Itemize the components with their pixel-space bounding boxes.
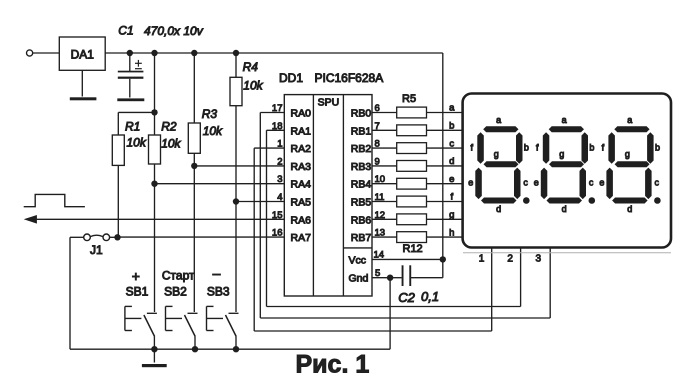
svg-text:RA6: RA6 (291, 214, 312, 226)
svg-text:10k: 10k (243, 79, 263, 93)
svg-text:C1: C1 (118, 24, 133, 38)
svg-text:Рис. 1: Рис. 1 (296, 351, 370, 379)
svg-text:R1: R1 (125, 120, 140, 134)
svg-text:f: f (450, 192, 453, 203)
svg-text:R3: R3 (202, 107, 218, 121)
svg-text:RB4: RB4 (351, 179, 372, 191)
svg-text:c: c (589, 178, 594, 188)
svg-text:a: a (627, 115, 632, 125)
svg-text:RB6: RB6 (351, 214, 372, 226)
svg-text:RB7: RB7 (351, 232, 372, 244)
svg-text:Vcc: Vcc (349, 254, 367, 266)
svg-text:g: g (449, 210, 454, 221)
svg-text:RB1: RB1 (351, 125, 372, 137)
svg-text:Старт: Старт (162, 269, 195, 283)
svg-text:a: a (449, 103, 455, 114)
svg-text:RA3: RA3 (291, 161, 312, 173)
svg-text:RA0: RA0 (291, 108, 312, 120)
svg-text:2: 2 (507, 254, 513, 265)
svg-text:d: d (627, 204, 632, 214)
svg-text:SB3: SB3 (207, 285, 230, 299)
svg-text:RA7: RA7 (291, 232, 312, 244)
svg-text:e: e (449, 174, 454, 185)
svg-text:R12: R12 (403, 243, 423, 255)
svg-text:RA1: RA1 (291, 125, 312, 137)
svg-text:e: e (468, 178, 473, 188)
svg-text:c: c (654, 178, 659, 188)
svg-text:RB5: RB5 (351, 197, 372, 209)
svg-text:c: c (449, 138, 454, 149)
svg-text:0,1: 0,1 (421, 289, 439, 304)
svg-text:C2: C2 (398, 290, 415, 305)
svg-text:+: + (132, 268, 140, 284)
svg-text:e: e (599, 178, 604, 188)
svg-text:a: a (496, 115, 501, 125)
svg-text:R2: R2 (161, 120, 177, 134)
svg-text:g: g (625, 149, 630, 159)
svg-text:RA4: RA4 (291, 179, 312, 191)
svg-text:3: 3 (536, 254, 542, 265)
svg-text:Gnd: Gnd (349, 273, 369, 285)
svg-text:10k: 10k (203, 124, 223, 138)
svg-text:RB2: RB2 (351, 143, 372, 155)
svg-text:SPU: SPU (318, 97, 340, 109)
svg-text:d: d (562, 204, 567, 214)
svg-text:d: d (449, 156, 454, 167)
svg-text:a: a (562, 115, 567, 125)
svg-text:g: g (559, 149, 564, 159)
svg-text:PIC16F628A: PIC16F628A (315, 71, 384, 85)
svg-text:RB0: RB0 (351, 108, 372, 120)
svg-text:DD1: DD1 (279, 71, 303, 85)
svg-text:RB3: RB3 (351, 161, 372, 173)
svg-text:h: h (449, 227, 454, 238)
svg-text:b: b (449, 121, 454, 132)
svg-text:b: b (655, 142, 660, 152)
svg-text:SB2: SB2 (164, 285, 187, 299)
svg-text:RA5: RA5 (291, 197, 312, 209)
svg-text:d: d (496, 204, 501, 214)
svg-text:470,0x 10v: 470,0x 10v (144, 24, 204, 38)
svg-text:10k: 10k (127, 136, 147, 150)
svg-text:e: e (534, 178, 539, 188)
svg-text:10k: 10k (161, 137, 181, 151)
svg-text:c: c (523, 178, 528, 188)
svg-text:R5: R5 (402, 93, 416, 105)
svg-text:–: – (213, 265, 221, 281)
svg-text:RA2: RA2 (291, 143, 312, 155)
svg-text:1: 1 (479, 254, 485, 265)
svg-text:SB1: SB1 (126, 285, 149, 299)
svg-text:b: b (524, 142, 529, 152)
svg-text:J1: J1 (90, 243, 103, 257)
svg-text:b: b (589, 142, 594, 152)
svg-text:R4: R4 (243, 60, 259, 74)
svg-text:g: g (494, 149, 499, 159)
svg-text:DA1: DA1 (71, 48, 95, 62)
